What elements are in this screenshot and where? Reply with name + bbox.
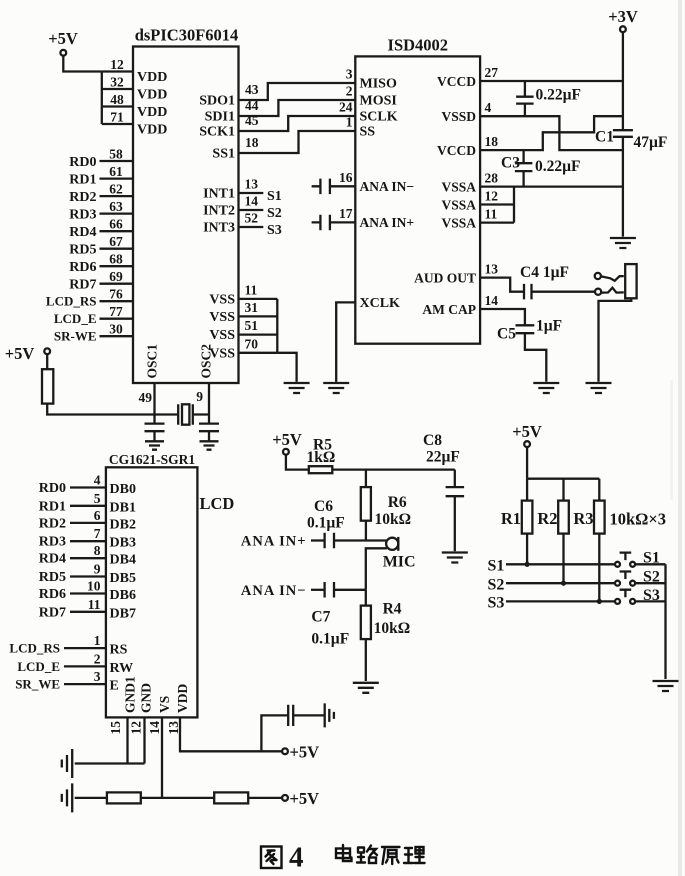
- svg-text:47µF: 47µF: [634, 134, 668, 151]
- wire SS1 to ISD: [239, 131, 356, 153]
- svg-text:9: 9: [196, 389, 203, 404]
- wire pin 14 INT2: [239, 209, 264, 211]
- wire pin 61 RD1: [100, 177, 134, 179]
- wire SDO1 to ISD: [239, 83, 356, 100]
- wire pin 4 DB0: [70, 486, 106, 488]
- svg-text:DB1: DB1: [110, 500, 136, 515]
- svg-text:RS: RS: [110, 643, 128, 658]
- wire +5V to rail: [526, 447, 528, 479]
- svg-text:VSSA: VSSA: [441, 197, 476, 212]
- wire cap1 top lead: [524, 81, 526, 97]
- wire Rc2 to +5V: [248, 797, 282, 799]
- wire R3 to S3 line: [598, 534, 600, 602]
- wire pin 63 RD3: [100, 212, 134, 214]
- svg-text:VCCD: VCCD: [437, 74, 476, 89]
- svg-text:GND: GND: [139, 683, 154, 713]
- wire jack sleeve to ground: [599, 298, 632, 382]
- svg-text:51: 51: [245, 318, 259, 333]
- svg-text:OSC2: OSC2: [199, 344, 214, 379]
- svg-text:S2: S2: [488, 577, 505, 594]
- svg-text:C4 1µF: C4 1µF: [520, 264, 569, 281]
- svg-text:24: 24: [339, 100, 353, 115]
- svg-text:DB0: DB0: [110, 482, 136, 497]
- capacitor C4 1uF: [524, 284, 532, 300]
- wire pin 11 DB7: [70, 611, 106, 613]
- svg-text:VSS: VSS: [209, 292, 235, 307]
- svg-text:LCD_E: LCD_E: [17, 659, 60, 674]
- ground dsPIC VSS: [284, 383, 310, 393]
- wire pin 7 DB3: [70, 540, 106, 542]
- svg-text:S1: S1: [267, 189, 282, 204]
- svg-text:18: 18: [245, 135, 259, 150]
- resistor R3: [594, 501, 605, 534]
- svg-text:VDD: VDD: [137, 105, 167, 120]
- svg-text:49: 49: [139, 390, 153, 405]
- svg-text:2: 2: [346, 84, 353, 99]
- svg-text:RD5: RD5: [39, 570, 66, 585]
- wire node to R6: [365, 470, 367, 488]
- svg-text:S1: S1: [643, 550, 660, 567]
- ground contrast (sideways): [62, 783, 72, 812]
- svg-text:RD7: RD7: [39, 605, 66, 620]
- svg-text:RD1: RD1: [39, 499, 66, 514]
- jack contact upper: [595, 273, 601, 279]
- wire C4 to jack: [532, 291, 596, 293]
- svg-text:LCD_RS: LCD_RS: [9, 641, 60, 656]
- wire pin 69 RD7: [100, 283, 134, 285]
- svg-text:15: 15: [108, 721, 123, 735]
- wire VSSA12 stub: [480, 203, 514, 205]
- wire pin 71 VDD: [102, 123, 133, 125]
- wire pin 2 RW: [64, 665, 106, 667]
- wire +5V to R5: [286, 455, 309, 470]
- ground R4: [353, 683, 379, 693]
- jack body (earphone): [625, 264, 636, 298]
- svg-text:45: 45: [245, 113, 259, 128]
- scan artifact: right edge band: [678, 0, 682, 876]
- terminal +3V: [620, 26, 626, 32]
- svg-text:4: 4: [289, 842, 304, 874]
- junction R3-S3: [597, 599, 602, 604]
- svg-text:5: 5: [94, 491, 101, 506]
- svg-text:8: 8: [94, 543, 101, 558]
- svg-text:7: 7: [94, 526, 101, 541]
- wire VSS ladder vertical: [276, 299, 278, 353]
- svg-text:1kΩ: 1kΩ: [307, 449, 336, 466]
- wire pin 3 E: [64, 683, 106, 685]
- svg-text:1µF: 1µF: [536, 318, 562, 335]
- svg-text:+5V: +5V: [290, 743, 320, 762]
- svg-text:30: 30: [109, 322, 123, 337]
- svg-text:AM CAP: AM CAP: [422, 302, 476, 317]
- wire pin 6 DB2: [70, 522, 106, 524]
- wire pin 5 DB1: [70, 505, 106, 507]
- svg-text:RD2: RD2: [39, 516, 66, 531]
- svg-text:RD2: RD2: [69, 190, 96, 205]
- wire resistor rail: [527, 478, 599, 480]
- svg-text:C6: C6: [314, 498, 333, 515]
- capacitor C5 1uF: [516, 325, 535, 333]
- terminal +5V top-left: [60, 50, 66, 56]
- wire GND stub: [143, 717, 145, 763]
- resistor R osc: [42, 369, 53, 403]
- svg-text:R6: R6: [388, 494, 407, 511]
- svg-text:C3: C3: [501, 155, 520, 172]
- svg-text:0.22µF: 0.22µF: [535, 158, 581, 175]
- resistor R4: [361, 606, 371, 640]
- microphone MIC: [386, 538, 398, 550]
- svg-text:S3: S3: [643, 587, 660, 604]
- wire OSC2 pin 9: [208, 383, 210, 424]
- junction R2-S2: [561, 581, 566, 586]
- wire S1 line: [506, 563, 615, 565]
- resistor R1: [522, 501, 533, 534]
- svg-text:DB2: DB2: [110, 517, 136, 532]
- switch S2: [615, 581, 620, 586]
- capacitor C6 0.1uF: [325, 533, 334, 548]
- svg-text:VCCD: VCCD: [437, 143, 476, 158]
- wire ANA IN−: [312, 185, 356, 187]
- capacitor C3 0.22uF: [515, 163, 533, 171]
- svg-text:RD5: RD5: [69, 243, 96, 258]
- capacitor C7 0.1uF: [325, 582, 334, 598]
- svg-text:70: 70: [245, 336, 259, 351]
- wire VSS to ground: [277, 353, 296, 382]
- IC U1 dsPIC30F6014 body: [133, 47, 239, 384]
- svg-text:C7: C7: [311, 609, 330, 626]
- svg-text:DB4: DB4: [110, 553, 136, 568]
- svg-text:+5V: +5V: [48, 29, 78, 48]
- svg-text:44: 44: [245, 98, 259, 113]
- svg-text:12: 12: [485, 189, 499, 204]
- wire C7 to node: [334, 589, 366, 591]
- wire pin 32 VDD: [102, 88, 133, 90]
- ground C8: [442, 553, 468, 563]
- wire VSSD to C1 bottom: [480, 116, 623, 150]
- resistor contrast 1: [107, 792, 141, 803]
- capacitor 0.22uF (VCCD27): [516, 97, 534, 104]
- svg-text:RD4: RD4: [39, 552, 66, 567]
- capacitor C8 22uF: [446, 487, 465, 496]
- wire XCLK to ground: [336, 302, 355, 382]
- wire pin 12 VDD: [102, 70, 133, 72]
- svg-text:VDD: VDD: [137, 88, 167, 103]
- wire S2 line: [506, 582, 615, 584]
- svg-text:22µF: 22µF: [426, 449, 460, 466]
- IC U3 CG1621-SGR1 body: [106, 467, 197, 717]
- wire S3 line: [506, 600, 615, 602]
- wire S2 to bus: [635, 582, 665, 584]
- svg-text:LCD_RS: LCD_RS: [46, 294, 97, 309]
- terminal +5V (VDD): [282, 748, 288, 754]
- resistor R5: [309, 466, 333, 473]
- jack contact lower: [595, 289, 601, 295]
- svg-text:INT3: INT3: [203, 221, 235, 236]
- svg-text:14: 14: [245, 194, 259, 209]
- svg-text:71: 71: [110, 110, 124, 125]
- svg-text:MISO: MISO: [360, 77, 397, 92]
- svg-text:DB7: DB7: [110, 606, 136, 621]
- svg-text:ISD4002: ISD4002: [388, 36, 449, 55]
- svg-text:12: 12: [110, 57, 124, 72]
- svg-text:R3: R3: [573, 509, 593, 528]
- svg-text:10kΩ×3: 10kΩ×3: [610, 510, 667, 529]
- wire pin 13 INT1: [239, 192, 264, 194]
- capacitor osc C (pin9): [199, 424, 219, 432]
- caption: 图 4 电路原理: [261, 847, 282, 869]
- svg-text:RD7: RD7: [69, 278, 96, 293]
- wire C6 to MIC: [334, 539, 386, 541]
- wire GND1 stub: [126, 717, 128, 763]
- wire pin 52 INT3: [239, 226, 264, 228]
- wire pin 68 RD6: [100, 265, 134, 267]
- ground switch bus: [653, 681, 679, 691]
- svg-text:INT2: INT2: [203, 204, 235, 219]
- svg-text:INT1: INT1: [203, 187, 235, 202]
- svg-text:S2: S2: [643, 569, 660, 586]
- svg-text:2: 2: [94, 651, 101, 666]
- svg-text:DB5: DB5: [110, 571, 136, 586]
- svg-text:C1: C1: [595, 129, 614, 146]
- ground VDD cap (sideways): [325, 703, 334, 727]
- svg-text:E: E: [110, 679, 119, 694]
- terminal +5V mic: [283, 449, 289, 455]
- wire OSC1 pin 49: [153, 383, 155, 424]
- wire pin 77 LCD_E: [100, 318, 134, 320]
- terminal +5V osc: [44, 348, 50, 354]
- wire switch bus: [664, 564, 666, 679]
- wire AUD OUT to C4: [480, 278, 524, 292]
- wire AM CAP to C5: [480, 309, 525, 325]
- svg-text:10: 10: [87, 579, 101, 594]
- wire VDD ladder vertical: [101, 72, 103, 125]
- svg-text:SCLK: SCLK: [360, 110, 398, 125]
- wire MIC to ANA IN-: [366, 548, 387, 590]
- wire pin 30 SR-WE: [100, 335, 134, 337]
- svg-text:RW: RW: [110, 661, 134, 676]
- svg-text:OSC1: OSC1: [145, 344, 160, 379]
- svg-text:VS: VS: [157, 696, 172, 713]
- wire pin 8 DB4: [70, 557, 106, 559]
- wire C3 top lead: [522, 150, 524, 163]
- wire node to C8: [454, 470, 456, 488]
- IC U2 ISD4002 body: [355, 56, 480, 343]
- wire cap to ground: [208, 431, 210, 441]
- svg-text:VDD: VDD: [137, 123, 167, 138]
- wire VDD to +5V: [180, 717, 282, 751]
- wire C3 bottom lead: [522, 171, 524, 187]
- svg-text:ANA IN+: ANA IN+: [360, 215, 415, 230]
- wire GND rail to ground: [75, 762, 145, 764]
- svg-text:LCD: LCD: [200, 494, 235, 513]
- svg-text:S3: S3: [488, 595, 505, 612]
- wire ANA IN+ lead: [311, 539, 325, 541]
- wire rail to R3: [598, 479, 600, 501]
- resistor R2: [558, 501, 569, 534]
- svg-text:C8: C8: [423, 432, 442, 449]
- svg-text:ANA IN−: ANA IN−: [360, 179, 415, 194]
- capacitor VDD decoupling: [288, 705, 293, 726]
- svg-text:13: 13: [245, 177, 259, 192]
- svg-text:10kΩ: 10kΩ: [375, 511, 412, 528]
- switch S3: [615, 599, 620, 604]
- svg-text:12: 12: [129, 721, 144, 735]
- svg-text:52: 52: [245, 211, 259, 226]
- ground +3V rail: [610, 238, 636, 248]
- wire VCCD18 to C1 top: [480, 116, 623, 150]
- svg-text:R1: R1: [501, 509, 521, 528]
- wire cap1 bottom lead: [524, 104, 526, 117]
- wire ground to Rc1: [75, 797, 107, 799]
- svg-text:+5V: +5V: [5, 344, 35, 363]
- svg-text:S2: S2: [267, 206, 282, 221]
- resistor contrast 2: [214, 792, 248, 803]
- svg-text:C5: C5: [497, 326, 516, 343]
- svg-text:1: 1: [94, 633, 101, 648]
- wire VCCD27 to +3V: [480, 80, 623, 82]
- wire pin 76 LCD_RS: [100, 300, 134, 302]
- svg-text:VSSD: VSSD: [441, 109, 476, 124]
- wire pin 62 RD2: [100, 195, 134, 197]
- svg-text:3: 3: [94, 669, 101, 684]
- svg-text:AUD OUT: AUD OUT: [414, 270, 476, 285]
- svg-text:31: 31: [245, 300, 259, 315]
- wire VSSA ladder vertical: [513, 187, 515, 223]
- wire pin 11 VSS: [239, 298, 278, 300]
- svg-text:SR-WE: SR-WE: [54, 329, 97, 344]
- svg-text:MOSI: MOSI: [360, 94, 397, 109]
- wire pin 58 RD0: [100, 160, 134, 162]
- wire pin 9 DB5: [70, 575, 106, 577]
- svg-text:48: 48: [110, 92, 124, 107]
- svg-text:11: 11: [245, 282, 258, 297]
- svg-text:SS1: SS1: [212, 147, 235, 162]
- capacitor osc C (pin49): [145, 424, 165, 432]
- svg-text:ANA IN−: ANA IN−: [241, 583, 307, 599]
- svg-text:4: 4: [485, 100, 492, 115]
- svg-text:VSS: VSS: [209, 328, 235, 343]
- svg-text:18: 18: [485, 134, 499, 149]
- svg-text:11: 11: [485, 207, 498, 222]
- capacitor at ANA IN+: [320, 215, 330, 231]
- svg-text:0.1µF: 0.1µF: [311, 631, 349, 648]
- wire SCK1 to ISD: [239, 116, 356, 131]
- wire +3V rail lower: [622, 137, 624, 237]
- svg-text:0.22µF: 0.22µF: [536, 87, 582, 104]
- svg-text:58: 58: [109, 147, 123, 162]
- wire VSSA28 to rail: [480, 185, 623, 187]
- svg-text:4: 4: [94, 473, 101, 488]
- svg-text:MIC: MIC: [383, 554, 416, 571]
- jack spring contact upper: [601, 276, 624, 281]
- svg-text:RD1: RD1: [69, 173, 96, 188]
- wire pin 10 DB6: [70, 592, 106, 594]
- wire R6 to ANA IN+: [365, 521, 367, 541]
- wire R1 to S1 line: [526, 534, 528, 565]
- ground XCLK: [323, 383, 349, 393]
- svg-text:SR_WE: SR_WE: [15, 677, 60, 692]
- svg-text:DB3: DB3: [110, 536, 136, 551]
- svg-text:LCD_E: LCD_E: [54, 311, 97, 326]
- wire rail to R2: [562, 479, 564, 501]
- svg-text:R4: R4: [383, 601, 402, 618]
- capacitor C1 47uF: [613, 130, 633, 137]
- svg-text:CG1621-SGR1: CG1621-SGR1: [109, 452, 196, 467]
- svg-text:69: 69: [109, 269, 123, 284]
- wire pin 1 RS: [64, 647, 106, 649]
- jack spring contact lower: [601, 288, 623, 293]
- svg-text:RD3: RD3: [69, 208, 96, 223]
- svg-text:67: 67: [109, 234, 123, 249]
- wire S3 to bus: [635, 600, 665, 602]
- wire R5 node to C8: [332, 468, 455, 470]
- svg-text:+5V: +5V: [272, 430, 302, 449]
- svg-text:9: 9: [94, 562, 101, 577]
- wire pin 70 VSS: [239, 352, 278, 354]
- svg-text:27: 27: [485, 65, 499, 80]
- svg-text:RD3: RD3: [39, 535, 66, 550]
- wire cap to ground: [153, 431, 155, 441]
- svg-text:+5V: +5V: [512, 422, 542, 441]
- wire pin 31 VSS: [239, 315, 278, 317]
- wire SDI1 to ISD: [239, 100, 356, 116]
- svg-text:+5V: +5V: [290, 789, 320, 808]
- ground LCD GND (sideways): [62, 749, 72, 778]
- svg-text:RD6: RD6: [39, 587, 66, 602]
- wire R4 to ground: [365, 639, 367, 681]
- resistor R6: [361, 487, 371, 521]
- junction R1-S1: [525, 562, 530, 567]
- svg-text:VSSA: VSSA: [441, 179, 476, 194]
- svg-text:R2: R2: [537, 509, 557, 528]
- svg-text:66: 66: [109, 217, 123, 232]
- wire R2 to S2 line: [562, 534, 564, 584]
- svg-text:ANA IN+: ANA IN+: [241, 534, 307, 550]
- svg-text:GND1: GND1: [123, 676, 138, 713]
- svg-text:14: 14: [147, 721, 162, 735]
- wire pin 66 RD4: [100, 230, 134, 232]
- wire node to R4: [365, 590, 367, 606]
- svg-text:XCLK: XCLK: [360, 296, 401, 311]
- wire Rc1 to Rc2: [141, 797, 214, 799]
- svg-text:RD0: RD0: [39, 481, 66, 496]
- svg-text:S3: S3: [267, 223, 282, 238]
- svg-text:10kΩ: 10kΩ: [374, 620, 411, 637]
- terminal +5V switches: [524, 441, 530, 447]
- svg-text:76: 76: [109, 287, 123, 302]
- svg-text:+3V: +3V: [608, 7, 638, 26]
- wire C5 to ground: [525, 333, 546, 382]
- svg-text:17: 17: [339, 206, 353, 221]
- crystal X1: [155, 404, 210, 424]
- svg-text:3: 3: [346, 67, 353, 82]
- svg-text:VDD: VDD: [175, 684, 190, 713]
- svg-text:14: 14: [485, 293, 499, 308]
- svg-text:SS: SS: [360, 125, 376, 140]
- wire S1 to bus: [635, 563, 665, 565]
- ground osc cap 2: [200, 441, 219, 449]
- ground C5: [533, 383, 559, 393]
- svg-text:VSSA: VSSA: [441, 215, 476, 230]
- svg-text:S1: S1: [488, 558, 505, 575]
- wire R osc to OSC1 node: [47, 404, 154, 415]
- svg-text:1: 1: [346, 115, 353, 130]
- svg-text:11: 11: [88, 597, 101, 612]
- svg-text:dsPIC30F6014: dsPIC30F6014: [135, 26, 239, 45]
- svg-text:SDO1: SDO1: [199, 94, 235, 109]
- svg-text:63: 63: [109, 199, 123, 214]
- wire ANA IN- lead: [311, 589, 325, 591]
